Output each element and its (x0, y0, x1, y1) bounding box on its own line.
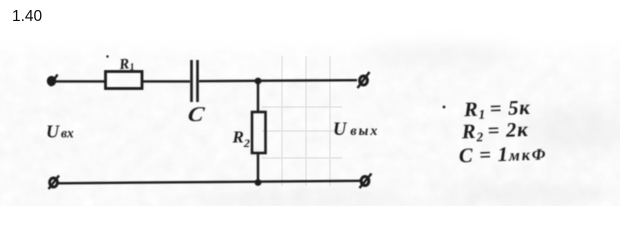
svg-text:1.40: 1.40 (12, 8, 43, 25)
wire: node down to R2 (257, 81, 259, 112)
ink speck left of values (443, 106, 446, 109)
node junction (top) (255, 78, 262, 85)
ink speck near R1 (106, 55, 108, 57)
input terminal (top-left) (47, 75, 57, 87)
resistor R2 (252, 112, 266, 153)
capacitor C (192, 60, 198, 102)
output terminal (top-right) (358, 72, 370, 88)
node junction (bottom) (255, 179, 262, 186)
wire: R2 down to bottom rail (257, 153, 259, 183)
wire: R1 to capacitor (143, 80, 190, 82)
wire: capacitor to output terminal (199, 80, 357, 81)
resistor R1 (106, 72, 143, 89)
svg-text:R2= 2к: R2= 2к (461, 119, 529, 145)
bottom rail wire (56, 181, 362, 184)
bottom-left terminal (49, 176, 60, 190)
wire: input terminal to R1 (55, 80, 105, 82)
svg-text:C = 1мкФ: C = 1мкФ (459, 142, 548, 167)
bottom-right terminal (360, 174, 372, 189)
faint background grid (scan bleed-through) (262, 56, 342, 186)
soft scan blotches (180, 45, 620, 212)
